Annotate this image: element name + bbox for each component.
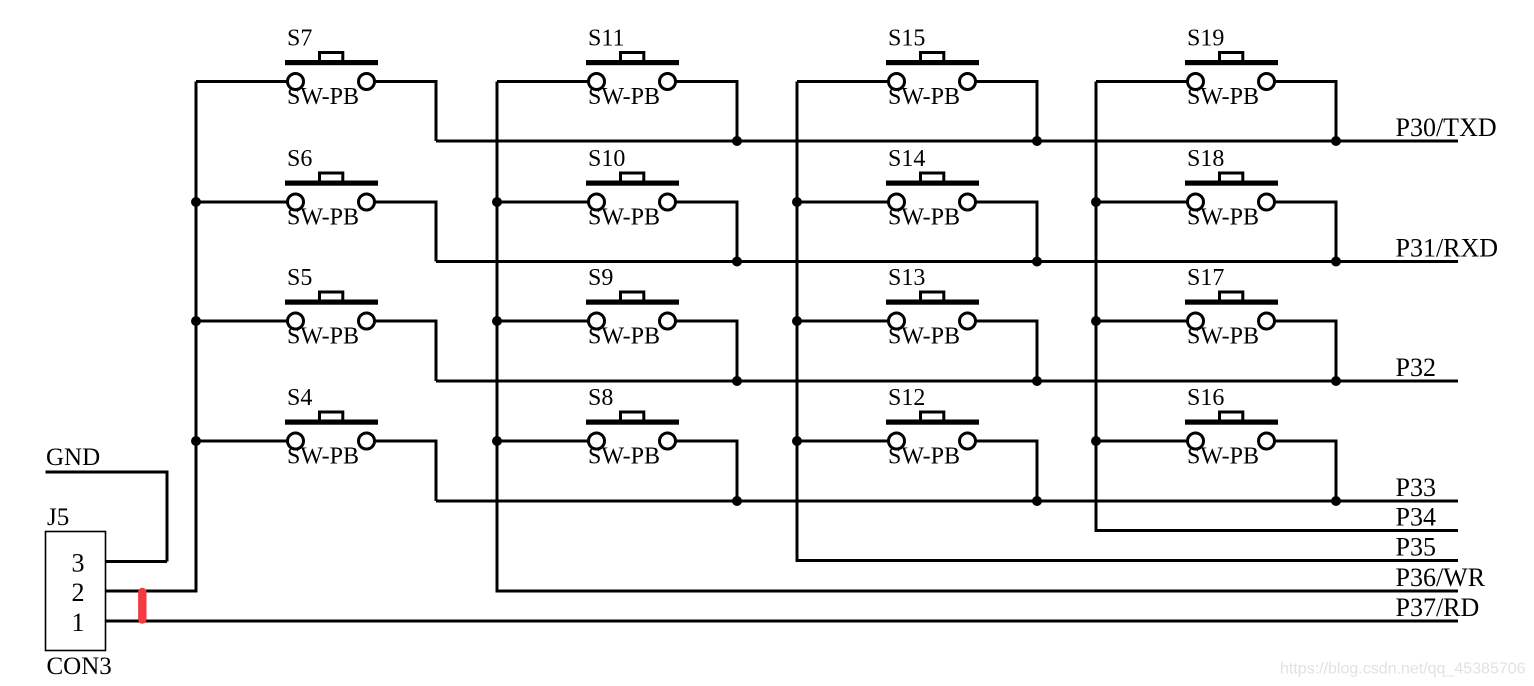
junction: P31/RXD bus / switch S14 drop	[1032, 257, 1042, 267]
svg-text:S16: S16	[1187, 385, 1224, 411]
svg-text:S18: S18	[1187, 146, 1224, 172]
svg-text:P34: P34	[1396, 503, 1436, 532]
pushbutton switch S11 (SW-PB)	[497, 26, 737, 142]
junction: column 3 vertical / row wire S13	[792, 316, 802, 326]
red highlight mark over J5 pin 1/2 leads	[138, 592, 146, 620]
junction: column 2 vertical / row wire S8	[492, 436, 502, 446]
svg-text:P32: P32	[1396, 353, 1436, 382]
junction: P31/RXD bus / switch S10 drop	[732, 257, 742, 267]
svg-text:P36/WR: P36/WR	[1396, 563, 1486, 592]
junction: column 3 vertical / row wire S14	[792, 197, 802, 207]
svg-text:S9: S9	[588, 265, 613, 291]
pushbutton switch S7 (SW-PB)	[196, 26, 436, 142]
svg-text:SW-PB: SW-PB	[588, 84, 660, 110]
svg-text:2: 2	[72, 578, 85, 607]
pushbutton switch S17 (SW-PB)	[1096, 265, 1336, 381]
svg-text:S14: S14	[888, 146, 925, 172]
svg-text:SW-PB: SW-PB	[1187, 324, 1259, 350]
svg-text:CON3: CON3	[47, 653, 112, 680]
pushbutton switch S10 (SW-PB)	[497, 146, 737, 262]
junction: column 2 vertical / row wire S10	[492, 197, 502, 207]
wire: column-2 vertical bus down and right to P36/WR line	[497, 82, 1458, 592]
pushbutton switch S4 (SW-PB)	[196, 385, 436, 501]
junction: column 1 vertical / row wire S5	[191, 316, 201, 326]
junction: column 1 vertical / row wire S6	[191, 197, 201, 207]
junction: P30/TXD bus / switch S11 drop	[732, 136, 742, 146]
svg-text:S13: S13	[888, 265, 925, 291]
svg-text:SW-PB: SW-PB	[888, 84, 960, 110]
svg-text:1: 1	[72, 608, 85, 637]
junction: P32 bus / switch S9 drop	[732, 376, 742, 386]
svg-text:https://blog.csdn.net/qq_45385: https://blog.csdn.net/qq_45385706	[1280, 661, 1526, 678]
pushbutton switch S18 (SW-PB)	[1096, 146, 1336, 262]
svg-text:S17: S17	[1187, 265, 1224, 291]
junction: column 2 vertical / row wire S9	[492, 316, 502, 326]
pushbutton switch S8 (SW-PB)	[497, 385, 737, 501]
pushbutton switch S14 (SW-PB)	[797, 146, 1037, 262]
svg-text:P37/RD: P37/RD	[1396, 593, 1480, 622]
svg-text:SW-PB: SW-PB	[888, 324, 960, 350]
wire: column-4 vertical bus down and right to P34 line	[1096, 82, 1458, 531]
pushbutton switch S13 (SW-PB)	[797, 265, 1037, 381]
junction: P32 bus / switch S17 drop	[1331, 376, 1341, 386]
wire: column-1 vertical bus down to J5 pin 2	[106, 82, 197, 592]
wire: row bus P31/RXD (y=261.5)	[436, 260, 1458, 263]
wire: column-3 vertical bus down and right to P35 line	[797, 82, 1458, 561]
junction: P32 bus / switch S13 drop	[1032, 376, 1042, 386]
pushbutton switch S9 (SW-PB)	[497, 265, 737, 381]
junction: P33 bus / switch S16 drop	[1331, 496, 1341, 506]
svg-text:SW-PB: SW-PB	[287, 84, 359, 110]
wire: row bus P33 (y=501)	[436, 500, 1458, 503]
svg-text:3: 3	[72, 549, 85, 578]
svg-text:P30/TXD: P30/TXD	[1396, 113, 1497, 142]
svg-text:SW-PB: SW-PB	[588, 324, 660, 350]
wire: row bus P32 (y=381)	[436, 380, 1458, 383]
svg-text:SW-PB: SW-PB	[287, 324, 359, 350]
svg-text:S10: S10	[588, 146, 625, 172]
svg-text:S19: S19	[1187, 26, 1224, 52]
junction: P33 bus / switch S8 drop	[732, 496, 742, 506]
svg-text:S7: S7	[287, 26, 312, 52]
svg-text:S4: S4	[287, 385, 312, 411]
junction: P31/RXD bus / switch S18 drop	[1331, 257, 1341, 267]
svg-text:S11: S11	[588, 26, 624, 52]
junction: column 4 vertical / row wire S17	[1091, 316, 1101, 326]
svg-text:SW-PB: SW-PB	[1187, 205, 1259, 231]
junction: P30/TXD bus / switch S15 drop	[1032, 136, 1042, 146]
svg-text:S5: S5	[287, 265, 312, 291]
svg-text:J5: J5	[47, 504, 69, 531]
junction: P33 bus / switch S12 drop	[1032, 496, 1042, 506]
svg-text:S12: S12	[888, 385, 925, 411]
svg-text:S15: S15	[888, 26, 925, 52]
pushbutton switch S16 (SW-PB)	[1096, 385, 1336, 501]
svg-text:SW-PB: SW-PB	[888, 205, 960, 231]
svg-text:SW-PB: SW-PB	[287, 205, 359, 231]
junction: column 4 vertical / row wire S18	[1091, 197, 1101, 207]
junction: P30/TXD bus / switch S19 drop	[1331, 136, 1341, 146]
svg-text:P31/RXD: P31/RXD	[1396, 234, 1499, 263]
junction: column 3 vertical / row wire S12	[792, 436, 802, 446]
pushbutton switch S15 (SW-PB)	[797, 26, 1037, 142]
svg-text:S8: S8	[588, 385, 613, 411]
junction: column 1 vertical / row wire S4	[191, 436, 201, 446]
connector J5 body (CON3)	[46, 532, 106, 651]
svg-text:SW-PB: SW-PB	[1187, 444, 1259, 470]
svg-text:SW-PB: SW-PB	[588, 444, 660, 470]
svg-text:P35: P35	[1396, 533, 1436, 562]
svg-text:SW-PB: SW-PB	[1187, 84, 1259, 110]
svg-text:SW-PB: SW-PB	[287, 444, 359, 470]
svg-text:SW-PB: SW-PB	[888, 444, 960, 470]
svg-text:S6: S6	[287, 146, 312, 172]
pushbutton switch S12 (SW-PB)	[797, 385, 1037, 501]
wire: J5 pin 1 lead / P37/RD line	[106, 620, 1459, 623]
wire: row bus P30/TXD (y=141)	[436, 140, 1458, 143]
pushbutton switch S19 (SW-PB)	[1096, 26, 1336, 142]
junction: column 4 vertical / row wire S16	[1091, 436, 1101, 446]
pushbutton switch S5 (SW-PB)	[196, 265, 436, 381]
svg-text:P33: P33	[1396, 473, 1436, 502]
svg-text:GND: GND	[46, 444, 100, 471]
wire: GND stub to J5 pin 3	[46, 472, 168, 562]
wire: J5 pin 3 lead	[106, 560, 168, 563]
svg-text:SW-PB: SW-PB	[588, 205, 660, 231]
pushbutton switch S6 (SW-PB)	[196, 146, 436, 262]
